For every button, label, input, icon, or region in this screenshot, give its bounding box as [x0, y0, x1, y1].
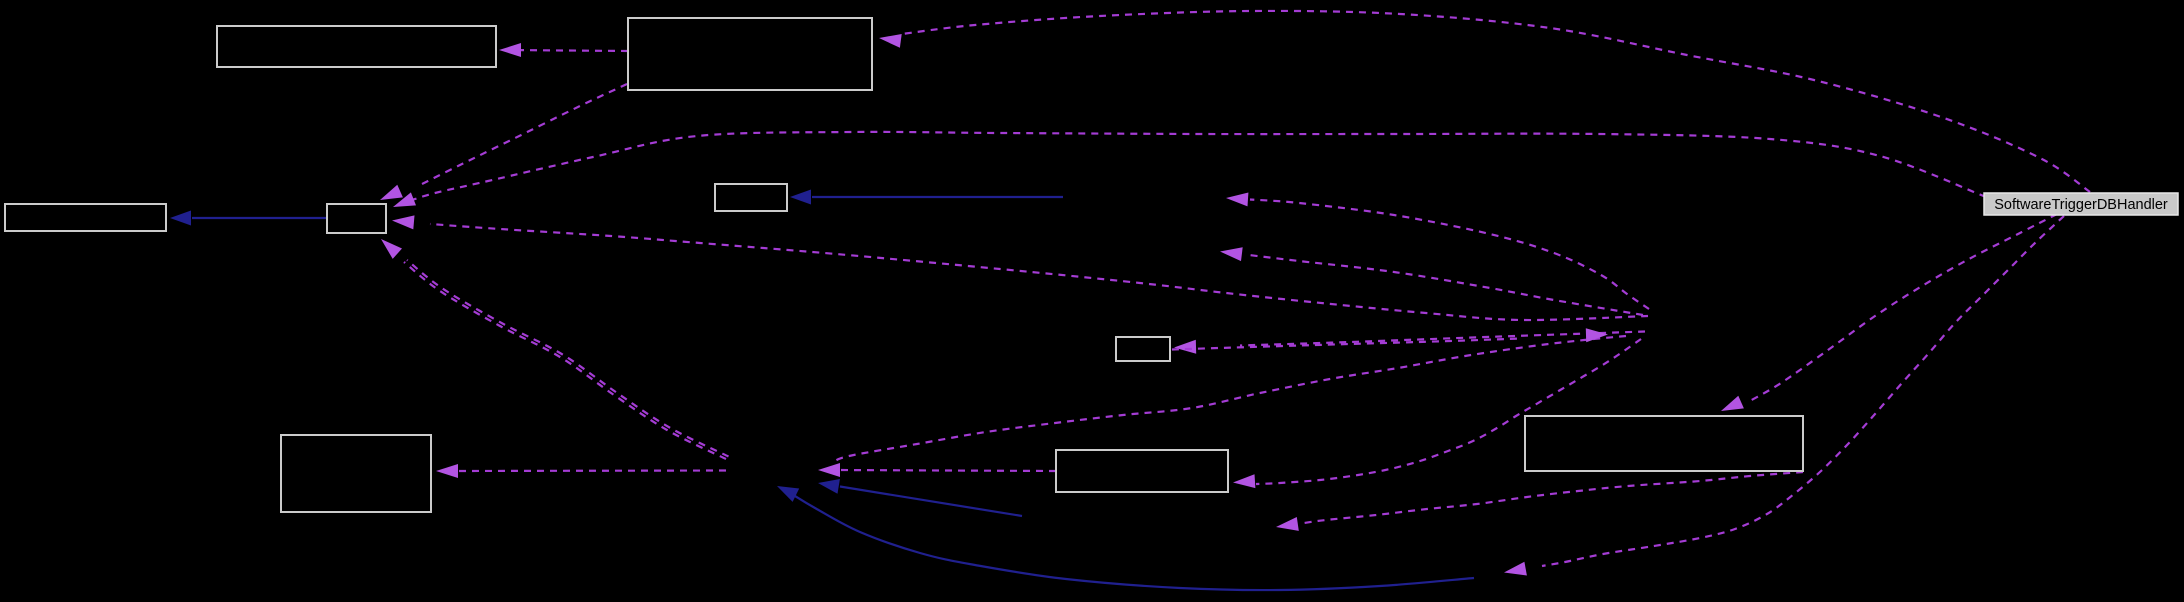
edge E12: B6 -> right-hub: [1172, 328, 1608, 349]
node box B7 (bottom-left): [281, 435, 431, 512]
edge E3: SoftwareTriggerDBHandler -> B4 (flat arc y~134): [393, 132, 1986, 207]
node box B9 (bottom-right): [1525, 416, 1803, 471]
node box B3 (middle-left): [5, 204, 166, 231]
edge E9: right-hub -> mid invisible node: [1226, 193, 1649, 310]
edge E4: B2 -> B4: [380, 84, 627, 200]
edge E1: B2 -> B1: [499, 43, 628, 57]
svg-text:SoftwareTriggerDBHandler: SoftwareTriggerDBHandler: [1994, 197, 2168, 213]
node box B4 (small left-middle): [327, 204, 386, 233]
edge Eb: B8 -> bottom-hub: [818, 463, 1056, 477]
edge E11: right-hub -> B6: [1174, 332, 1645, 354]
blue edge BL3: invisible node -> bottom-hub (straight): [818, 479, 1022, 516]
edge Ed: right-hub -> bottom-hub (long diagonal): [832, 336, 1626, 463]
node box B1 (top-left): [217, 26, 496, 67]
edge S3: SoftwareTriggerDBHandler -> B9 top: [1721, 214, 2057, 411]
edge E13: right-hub -> B8 (swoop): [1233, 339, 1641, 488]
edge E5: right-hub -> B4: [392, 215, 1648, 320]
node box B5 (small middle): [715, 184, 787, 211]
edge S4: SoftwareTriggerDBHandler -> bottom-right invisible node: [1504, 216, 2064, 576]
node box B8 (bottom-middle): [1056, 450, 1228, 492]
edge E6b: bottom-hub -> B4 (diagonal pair line 2): [407, 260, 729, 457]
edge E2: SoftwareTriggerDBHandler -> B2 (top arc): [879, 11, 2090, 192]
blue edge BL4: bottom-right invisible node -> bottom-hub (long curve): [777, 486, 1474, 590]
main node: SoftwareTriggerDBHandler: [1984, 193, 2178, 215]
blue edge BL2: B4 -> B3 (inheritance): [170, 211, 327, 226]
edge E6a: bottom-hub -> B4 (diagonal pair line 1): [381, 239, 726, 459]
node box B2 (top-middle): [628, 18, 872, 90]
edge Ea: bottom-hub -> B7: [436, 464, 726, 478]
edge S5: B9 bottom -> invisible node near (1276,527): [1276, 472, 1803, 531]
node box B6 (tiny middle): [1116, 337, 1170, 361]
blue edge BL1: mid invisible node -> B5 (inheritance): [790, 190, 1063, 205]
edge E10: right-hub -> invisible node 3: [1220, 247, 1643, 315]
